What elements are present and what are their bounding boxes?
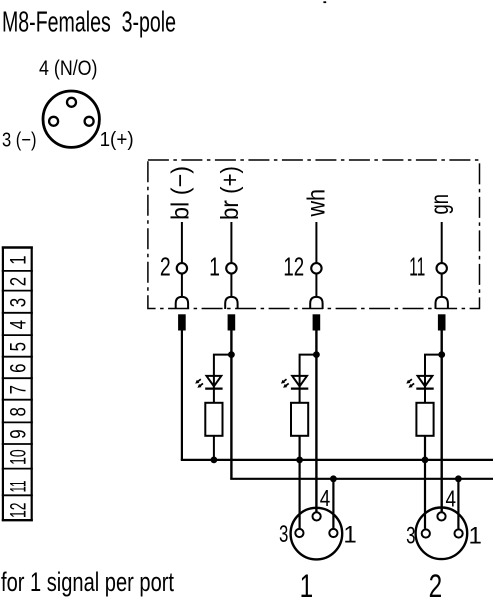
branch wire <box>300 355 317 403</box>
port1 pin1 <box>329 529 337 537</box>
svg-text:3 (−): 3 (−) <box>2 129 37 152</box>
port 2 connector <box>416 508 468 560</box>
svg-text:4: 4 <box>6 320 31 329</box>
resistor R3 <box>416 403 433 436</box>
svg-text:1: 1 <box>6 255 31 264</box>
M8 face connector outline <box>43 91 99 147</box>
ferrule br <box>228 314 236 330</box>
LED D2 <box>292 376 307 386</box>
junction dot br <box>228 351 235 358</box>
svg-text:12: 12 <box>5 503 30 519</box>
terminal strip 12 cells <box>2 247 33 522</box>
minus bus <box>181 459 493 461</box>
socket fork gn <box>436 297 448 309</box>
svg-text:1: 1 <box>300 569 314 604</box>
svg-text:6: 6 <box>6 364 31 373</box>
pin 1 contact <box>85 117 94 126</box>
LED D3 <box>418 376 433 386</box>
LED D1 <box>207 376 222 386</box>
socket fork wh <box>310 297 322 309</box>
svg-text:2: 2 <box>429 569 443 604</box>
port2 pin3 <box>422 529 430 537</box>
port1 pin3 <box>295 529 303 537</box>
wire bl upper <box>182 222 442 297</box>
terminal circle 2 <box>177 263 187 273</box>
svg-text:4: 4 <box>446 487 457 512</box>
svg-text:8: 8 <box>6 407 31 416</box>
resistor R2 <box>291 403 308 436</box>
junction dot bus <box>296 457 303 464</box>
svg-text:12: 12 <box>283 251 304 281</box>
svg-text:bl (−): bl (−) <box>166 166 194 220</box>
svg-text:br (+): br (+) <box>216 166 244 220</box>
junction dot wh <box>313 351 320 358</box>
svg-text:2: 2 <box>6 277 31 286</box>
terminal circle 11 <box>437 263 447 273</box>
svg-text:3: 3 <box>406 522 415 549</box>
svg-text:2: 2 <box>160 252 171 281</box>
svg-text:1(+): 1(+) <box>100 128 134 151</box>
port2 pin1 <box>455 529 463 537</box>
junction dot bus <box>211 457 218 464</box>
resistor R1 <box>205 403 222 436</box>
port 1 connector <box>291 508 343 560</box>
svg-text:gn: gn <box>426 194 454 215</box>
terminal circle 12 <box>311 263 321 273</box>
svg-text:1: 1 <box>343 521 356 548</box>
LED branch 2 <box>281 351 319 528</box>
svg-text:M8-Females 3-pole: M8-Females 3-pole <box>2 7 176 39</box>
strip numbers 1-12 rotated <box>5 255 31 518</box>
LED arrows <box>284 379 287 381</box>
svg-text:1: 1 <box>469 522 482 549</box>
branch wire <box>425 355 442 403</box>
branch wire <box>214 355 232 403</box>
wire to bus <box>213 436 215 460</box>
LED branch 3 <box>407 351 445 528</box>
svg-text:for 1 signal per port: for 1 signal per port <box>1 567 174 597</box>
ferrule gn <box>438 314 446 330</box>
svg-text:wh: wh <box>303 189 331 217</box>
terminal circle 1 <box>226 263 236 273</box>
junction dot bus <box>422 457 429 464</box>
ferrule wh <box>313 314 321 330</box>
svg-text:9: 9 <box>6 429 31 438</box>
wire wh down <box>315 330 317 512</box>
svg-text:7: 7 <box>6 385 31 394</box>
wire to bus and port1 pin3 <box>299 436 301 529</box>
svg-text:3: 3 <box>279 521 288 548</box>
LED arrows <box>198 379 201 381</box>
svg-text:3: 3 <box>6 298 31 307</box>
svg-text:11: 11 <box>409 253 425 282</box>
socket fork br <box>225 297 237 309</box>
ferrule bl <box>178 314 186 330</box>
plus bus <box>230 478 493 480</box>
LED arrows <box>409 379 412 381</box>
wire br down <box>230 330 232 479</box>
svg-text:10: 10 <box>5 449 30 465</box>
crop mark dash <box>323 1 326 3</box>
port1 pin1 wire <box>330 475 337 482</box>
port2 pin1 wire <box>455 475 462 482</box>
wire bl down <box>181 330 183 460</box>
LED branch 1 <box>196 351 235 463</box>
junction dot gn <box>438 351 445 358</box>
svg-text:4: 4 <box>320 486 331 511</box>
svg-text:4 (N/O): 4 (N/O) <box>39 57 98 80</box>
svg-text:5: 5 <box>6 342 31 351</box>
wire to bus and port2 pin3 <box>424 436 426 529</box>
port1 pin4 <box>313 512 321 520</box>
pin 3 contact <box>49 117 58 126</box>
svg-text:1: 1 <box>209 252 220 281</box>
svg-text:11: 11 <box>5 481 30 493</box>
wire gn down <box>441 330 443 512</box>
socket fork bl <box>176 297 188 309</box>
module dash-dot enclosure box <box>148 160 480 309</box>
port2 pin4 <box>437 512 445 520</box>
pin 4 contact <box>67 98 76 107</box>
